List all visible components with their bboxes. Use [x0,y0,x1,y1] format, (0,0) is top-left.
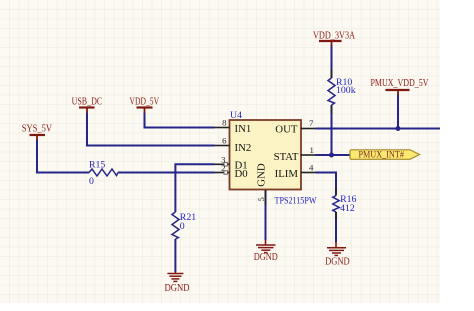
wire USB_DC vertical+horizontal to IN2 [87,113,215,146]
svg-text:IN2: IN2 [235,142,252,154]
ground DGND under R16 [325,242,350,268]
pin 5 GND [256,190,266,205]
svg-text:R15: R15 [89,159,105,170]
wire OUT to right edge [316,128,441,130]
svg-text:DGND: DGND [254,252,278,263]
svg-text:VDD_5V: VDD_5V [130,97,160,108]
junction dot STAT/R10 [329,153,334,158]
svg-text:VDD_3V3A: VDD_3V3A [313,30,356,41]
resistor R10 [328,77,356,105]
svg-text:5: 5 [256,197,266,202]
wire PMUX_VDD_5V drop to OUT net [397,95,399,129]
pin 3 D1 [215,155,230,166]
wire SYS_5V vertical to R15 [37,140,89,173]
svg-text:D0: D0 [235,168,248,180]
svg-text:6: 6 [222,136,227,146]
power port VDD_5V [130,97,160,113]
resistor R21 [172,212,196,239]
svg-text:SYS_5V: SYS_5V [22,124,53,135]
svg-text:412: 412 [340,203,355,214]
svg-text:IN1: IN1 [235,123,252,135]
wire D1 to R21 [175,164,214,212]
wire GND pin 5 to ground [265,190,267,240]
svg-text:DGND: DGND [325,257,350,268]
resistor R16 [333,194,357,214]
wire STAT to port PMUX_INT# [316,154,351,156]
svg-text:DGND: DGND [165,283,190,294]
ground DGND under R21 [165,272,190,294]
power port USB_DC [72,97,103,113]
wire R15 to pin D0 [118,172,215,174]
pin 8 IN1 [215,118,230,128]
svg-text:8: 8 [222,118,227,128]
wire VDD_5V vertical+horizontal to IN1 [145,113,215,128]
svg-text:PMUX_VDD_5V: PMUX_VDD_5V [371,78,430,89]
svg-text:USB_DC: USB_DC [72,97,103,108]
svg-text:ILIM: ILIM [275,168,299,180]
pin 6 IN2 [215,136,230,146]
svg-text:4: 4 [309,163,314,173]
svg-text:7: 7 [309,118,314,128]
svg-text:TPS2115PW: TPS2115PW [275,196,318,207]
pin 4 ILIM [301,163,316,173]
wire R16 to ground [335,212,337,242]
power port PMUX_VDD_5V [371,78,430,95]
pin 1 STAT [301,145,316,155]
svg-text:PMUX_INT#: PMUX_INT# [358,150,404,160]
svg-text:OUT: OUT [275,124,298,136]
pin 7 OUT [301,118,316,128]
svg-text:GND: GND [256,163,268,187]
wire ILIM to R16 [316,173,337,196]
resistor R15 [89,159,118,187]
power port SYS_5V [22,124,53,140]
wire R10 to STAT net [331,105,333,155]
wire R21 to ground [174,239,176,272]
pin 2 D0 [215,163,230,174]
op-amp U4 TPS2115PW body [230,120,302,190]
port PMUX_INT# [350,150,420,161]
power port VDD_3V3A [313,30,356,46]
svg-text:100k: 100k [336,85,356,96]
svg-text:1: 1 [310,145,314,155]
svg-text:0: 0 [89,176,94,187]
svg-text:STAT: STAT [274,151,299,163]
svg-text:U4: U4 [230,110,242,121]
svg-text:0: 0 [180,221,185,232]
ground DGND under U4 pin 5 [254,240,278,263]
wire VDD_3V3A to R10 [331,45,333,78]
junction dot OUT/PMUX_VDD_5V [396,126,401,131]
